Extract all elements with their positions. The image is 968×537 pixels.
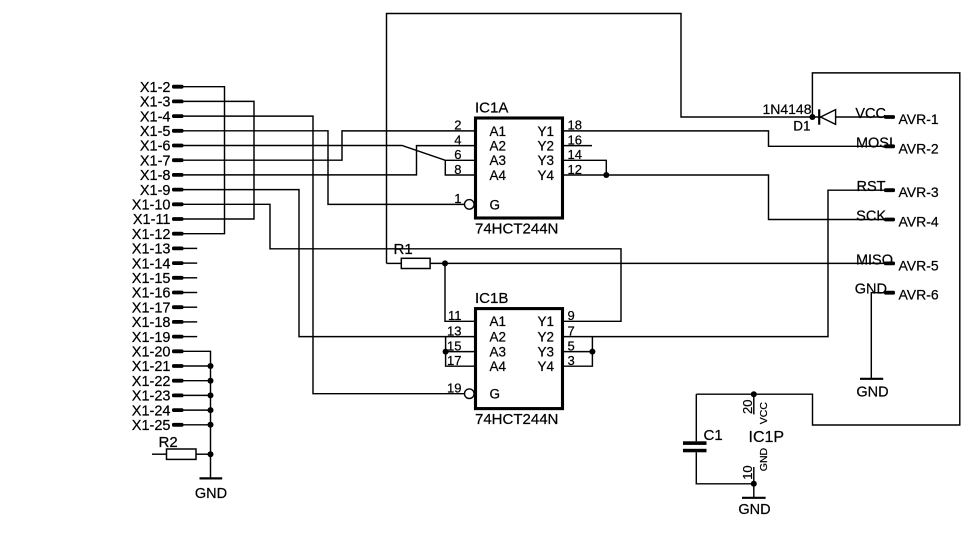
ground symbol below IC1P — [738, 484, 770, 518]
svg-text:AVR-6: AVR-6 — [899, 287, 939, 303]
svg-text:Y2: Y2 — [538, 139, 555, 154]
svg-text:X1-12: X1-12 — [132, 227, 171, 243]
svg-text:IC1A: IC1A — [475, 99, 508, 116]
ground symbol below R2 bus — [195, 478, 227, 502]
wire X1-10 to IC1B pin 9 (Y1) — [184, 204, 622, 321]
svg-text:AVR-1: AVR-1 — [899, 111, 939, 127]
svg-text:AVR-5: AVR-5 — [899, 257, 939, 273]
connector pin X1-2 — [140, 80, 184, 96]
capacitor C1 — [683, 394, 754, 484]
svg-text:Y3: Y3 — [538, 153, 555, 168]
wire X1-24 to ground bus — [184, 409, 211, 411]
svg-text:GND: GND — [738, 502, 770, 518]
svg-text:GND: GND — [758, 447, 770, 471]
svg-text:4: 4 — [454, 132, 461, 147]
IC1A pin names inside — [490, 124, 555, 213]
IC1A name label — [475, 99, 508, 116]
diode D1 (1N4148) — [819, 109, 835, 124]
svg-text:AVR-3: AVR-3 — [899, 184, 939, 200]
wire X1-3 to X1-11 — [184, 101, 255, 219]
connector pin X1-8 — [140, 168, 184, 184]
wire X1-22 to ground bus — [184, 380, 211, 382]
IC1B name label — [475, 290, 508, 307]
connector pin AVR-3 — [884, 184, 939, 200]
svg-text:Y4: Y4 — [538, 359, 555, 374]
junction VCC at IC1P pin 20 — [751, 391, 757, 397]
connector pin X1-23 — [132, 389, 184, 405]
wire IC1A Y3 (14) down to Y4 — [564, 160, 606, 175]
connector pin X1-9 — [140, 183, 184, 199]
wire IC1B Y2 (7) to RST AVR-3 — [564, 190, 884, 336]
wire R1 left to top rail to diode junction — [387, 14, 813, 264]
connector pin X1-21 — [132, 359, 184, 375]
svg-text:20: 20 — [740, 400, 755, 414]
svg-text:MOSI: MOSI — [856, 135, 893, 151]
svg-text:Y4: Y4 — [538, 168, 555, 183]
wire X1-9 to IC1B pin 13 (A2) — [184, 190, 475, 337]
svg-text:Y3: Y3 — [538, 345, 555, 360]
svg-text:A2: A2 — [490, 330, 507, 345]
net label SCK — [856, 209, 886, 225]
wire X1-7 to IC1A pin 2 (A1) — [184, 131, 475, 160]
buffer IC1B outline — [476, 309, 563, 409]
svg-text:X1-4: X1-4 — [140, 109, 171, 125]
connector pin X1-17 — [132, 300, 197, 316]
wire X1-5 to IC1A pin 1 (G) — [184, 131, 465, 205]
svg-text:9: 9 — [568, 308, 575, 323]
connector pin X1-4 — [140, 109, 184, 125]
wire X1-23 to ground bus — [184, 394, 211, 396]
junction tie at IC1B pin 5 — [589, 349, 595, 355]
IC1P pin 10 number label — [740, 465, 755, 479]
svg-text:74HCT244N: 74HCT244N — [475, 411, 558, 428]
svg-text:2: 2 — [454, 118, 461, 133]
connector pin X1-3 — [140, 95, 184, 111]
connector pin X1-5 — [140, 124, 184, 140]
svg-text:X1-21: X1-21 — [132, 359, 171, 375]
svg-text:X1-11: X1-11 — [133, 212, 171, 228]
svg-text:8: 8 — [454, 162, 461, 177]
svg-text:IC1P: IC1P — [749, 429, 785, 446]
wire diode junction to VCC AVR-1 — [812, 116, 884, 118]
svg-text:X1-9: X1-9 — [140, 183, 171, 199]
svg-text:A4: A4 — [490, 168, 507, 183]
wire X1-20 ground bus — [184, 351, 211, 478]
connector pin X1-24 — [132, 403, 184, 419]
connector pin X1-11 — [133, 212, 184, 228]
IC1A value label 74HCT244N — [475, 221, 558, 238]
svg-text:X1-19: X1-19 — [132, 330, 171, 346]
net label MOSI — [856, 135, 893, 151]
svg-text:X1-23: X1-23 — [132, 389, 171, 405]
svg-text:X1-10: X1-10 — [132, 198, 171, 214]
net label RST — [857, 179, 886, 195]
svg-text:10: 10 — [740, 465, 755, 479]
svg-text:GND: GND — [195, 486, 227, 502]
svg-text:74HCT244N: 74HCT244N — [475, 221, 558, 238]
IC1B pin numbers — [447, 308, 575, 395]
svg-text:13: 13 — [447, 323, 461, 338]
svg-text:19: 19 — [447, 381, 461, 396]
connector pin X1-14 — [132, 256, 197, 272]
svg-text:1: 1 — [454, 191, 461, 206]
svg-text:A1: A1 — [490, 124, 507, 139]
svg-text:X1-24: X1-24 — [132, 403, 171, 419]
IC1P pin 20 number label — [740, 400, 755, 414]
svg-text:A3: A3 — [490, 345, 507, 360]
connector pin AVR-1 — [884, 111, 939, 127]
svg-text:A4: A4 — [490, 359, 507, 374]
junction ground bus at R2 — [208, 451, 214, 457]
svg-text:MISO: MISO — [856, 252, 893, 268]
junction on ground bus at X1-21 — [208, 363, 214, 369]
svg-text:G: G — [490, 387, 501, 402]
svg-text:AVR-2: AVR-2 — [899, 140, 939, 156]
wire MISO net (R1 right to AVR-5) — [430, 262, 884, 264]
svg-text:X1-5: X1-5 — [140, 124, 171, 140]
svg-text:Y1: Y1 — [538, 124, 555, 139]
diode D1 value label 1N4148 — [762, 101, 811, 117]
connector pin X1-16 — [132, 286, 197, 302]
net label MISO — [856, 252, 893, 268]
junction on ground bus at X1-23 — [208, 392, 214, 398]
svg-text:SCK: SCK — [856, 209, 886, 225]
wire X1-4 to IC1B pin 19 (G) — [184, 116, 465, 394]
IC1P pin 20 VCC stub — [753, 394, 755, 414]
svg-text:X1-22: X1-22 — [132, 374, 171, 390]
svg-text:X1-3: X1-3 — [140, 95, 171, 111]
svg-text:A2: A2 — [490, 139, 507, 154]
wire IC1B Y2-Y3-Y4 tie — [564, 337, 592, 367]
svg-text:R2: R2 — [159, 434, 178, 451]
wire AVR-6 to ground — [871, 293, 884, 379]
svg-text:X1-17: X1-17 — [132, 300, 171, 316]
connector pin AVR-5 — [884, 257, 939, 273]
connector pin X1-10 — [132, 198, 184, 214]
svg-text:X1-7: X1-7 — [140, 153, 171, 169]
connector pin X1-15 — [132, 271, 197, 287]
wire X1-21 to ground bus — [184, 365, 211, 367]
buffer IC1A outline — [476, 118, 563, 218]
svg-text:X1-16: X1-16 — [132, 286, 171, 302]
connector pin X1-7 — [140, 153, 184, 169]
svg-text:A1: A1 — [490, 314, 507, 329]
IC1B G inverter bubble pin 19 — [465, 389, 475, 399]
junction Y3/Y4 — [603, 172, 609, 178]
IC1P pin 10 name GND — [758, 447, 770, 471]
svg-text:IC1B: IC1B — [475, 290, 508, 307]
wire X1-6 to IC1A pins 6,8 (A3,A4) — [184, 146, 475, 176]
resistor R1 — [387, 258, 431, 268]
junction on ground bus at X1-24 — [208, 407, 214, 413]
svg-text:RST: RST — [857, 179, 886, 195]
net label GND — [855, 282, 887, 298]
connector pin X1-6 — [140, 139, 184, 155]
IC1P pin 10 GND stub — [753, 467, 755, 484]
connector pin X1-22 — [132, 374, 184, 390]
connector pin X1-20 — [132, 345, 184, 361]
connector pin X1-19 — [132, 330, 197, 346]
svg-text:6: 6 — [454, 147, 461, 162]
svg-text:D1: D1 — [793, 119, 810, 134]
junction on ground bus at X1-25 — [208, 422, 214, 428]
resistor R2 label — [159, 434, 178, 451]
svg-text:X1-8: X1-8 — [140, 168, 171, 184]
svg-text:X1-18: X1-18 — [132, 315, 171, 331]
junction VCC net at diode — [809, 114, 815, 120]
connector pin X1-25 — [132, 418, 184, 434]
IC1B pin names inside — [490, 314, 555, 401]
ground symbol below AVR-6 — [856, 379, 888, 401]
svg-text:X1-13: X1-13 — [132, 242, 171, 258]
wire X1-8 to IC1A pin 4 (A2) — [184, 146, 475, 175]
svg-text:X1-20: X1-20 — [132, 345, 171, 361]
svg-text:X1-15: X1-15 — [132, 271, 171, 287]
wire X1-25 to ground bus — [184, 424, 211, 426]
svg-text:Y2: Y2 — [538, 330, 555, 345]
wire IC1A Y4 (12) to SCK AVR-4 — [564, 175, 884, 220]
svg-text:X1-2: X1-2 — [140, 80, 171, 96]
wire IC1B A2-A3-A4 tie — [446, 337, 475, 367]
junction on ground bus at X1-22 — [208, 378, 214, 384]
diode D1 name label — [793, 119, 810, 134]
resistor R2 — [152, 449, 211, 459]
connector pin X1-12 — [132, 227, 184, 243]
wire IC1A Y1 (18) to MOSI AVR-2 — [564, 131, 884, 146]
connector pin X1-13 — [132, 242, 197, 258]
wire junction to IC1B pin 11 (A1) — [445, 263, 475, 321]
resistor R1 label — [394, 241, 413, 258]
junction R1/MISO/IC1B-A1 — [442, 260, 448, 266]
svg-text:AVR-4: AVR-4 — [899, 214, 939, 230]
svg-text:VCC: VCC — [758, 402, 770, 425]
connector pin AVR-4 — [884, 214, 939, 230]
connector pin AVR-6 — [884, 287, 939, 303]
junction GND at IC1P pin 10 / C1 — [751, 481, 757, 487]
IC1B value label 74HCT244N — [475, 411, 558, 428]
svg-text:R1: R1 — [394, 241, 413, 258]
svg-text:1N4148: 1N4148 — [762, 101, 811, 117]
connector pin X1-18 — [132, 315, 197, 331]
IC1P pin 20 name VCC — [758, 402, 770, 425]
svg-text:Y1: Y1 — [538, 314, 555, 329]
net label VCC — [855, 106, 886, 122]
wire IC1A Y2 (16) stub — [564, 145, 592, 147]
IC1A G inverter bubble pin 1 — [465, 200, 475, 210]
svg-text:X1-25: X1-25 — [132, 418, 171, 434]
wire X1-2 to X1-12 — [184, 87, 225, 234]
IC1A pin numbers — [454, 118, 582, 207]
wire VCC net routing loop — [696, 73, 960, 425]
svg-text:GND: GND — [856, 385, 888, 401]
svg-text:VCC: VCC — [855, 106, 886, 122]
svg-text:X1-6: X1-6 — [140, 139, 171, 155]
IC1P name label — [749, 429, 785, 446]
connector pin AVR-2 — [884, 140, 939, 156]
svg-text:A3: A3 — [490, 153, 507, 168]
svg-text:G: G — [490, 197, 501, 212]
capacitor C1 label — [704, 427, 723, 444]
junction tie at IC1B pin 15 — [443, 349, 449, 355]
svg-text:X1-14: X1-14 — [132, 256, 171, 272]
